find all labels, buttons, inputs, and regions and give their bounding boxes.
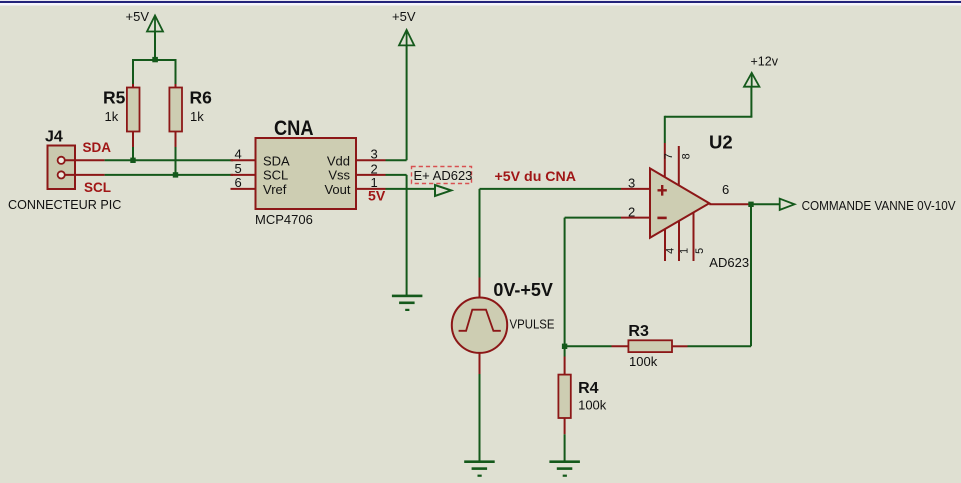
svg-text:+5V du CNA: +5V du CNA: [495, 168, 577, 184]
wire Vout to terminal: [386, 188, 435, 190]
svg-text:COMMANDE VANNE 0V-10V: COMMANDE VANNE 0V-10V: [802, 199, 956, 213]
source VPULSE: [452, 278, 507, 375]
svg-text:MCP4706: MCP4706: [255, 212, 313, 227]
wire junction to R4: [564, 346, 566, 356]
wire inverting drop: [564, 218, 566, 347]
wire +12v vertical: [750, 87, 752, 117]
svg-text:SCL: SCL: [84, 180, 111, 195]
svg-text:1k: 1k: [105, 109, 119, 124]
op-amp U2 AD623: [621, 143, 749, 261]
wire +5V drop: [406, 46, 408, 161]
junction output/feedback: [748, 202, 753, 207]
power +5V P1: [147, 16, 163, 32]
wire Vdd to +5V: [386, 159, 407, 161]
net tag E+ AD623: [412, 167, 473, 184]
svg-text:0V-+5V: 0V-+5V: [493, 280, 553, 300]
wire R5 to SDA net: [132, 147, 134, 160]
svg-text:+5V: +5V: [126, 9, 150, 24]
svg-text:3: 3: [371, 147, 378, 162]
svg-text:+12v: +12v: [751, 54, 779, 68]
svg-text:U2: U2: [709, 132, 733, 153]
wire R3 to feedback: [688, 345, 752, 347]
junction R5/SDA: [130, 158, 135, 163]
svg-text:7: 7: [663, 153, 675, 159]
power +12v P3: [744, 73, 759, 87]
svg-text:CNA: CNA: [274, 117, 314, 140]
svg-text:R6: R6: [190, 88, 213, 108]
wire P1 to rail: [154, 32, 156, 61]
svg-text:100k: 100k: [629, 354, 658, 369]
wire R6 to SCL net: [175, 147, 177, 175]
svg-text:SDA: SDA: [263, 153, 290, 168]
wire rail to R5: [132, 59, 134, 84]
svg-text:6: 6: [235, 175, 242, 190]
wire rail to R6: [175, 59, 177, 84]
svg-text:SDA: SDA: [83, 140, 112, 155]
connector J4: [48, 146, 105, 190]
svg-text:VPULSE: VPULSE: [510, 317, 555, 331]
svg-text:E+ AD623: E+ AD623: [414, 168, 473, 183]
wire op-amp pin2 horizontal: [565, 217, 621, 219]
wire R4 to ground: [564, 434, 566, 461]
svg-text:6: 6: [722, 182, 729, 197]
svg-text:3: 3: [628, 175, 635, 190]
svg-text:J4: J4: [45, 129, 63, 146]
wire junction to R3: [565, 345, 612, 347]
resistor R4: [558, 357, 570, 435]
wire SDA: [105, 159, 233, 161]
svg-text:Vdd: Vdd: [327, 153, 350, 168]
junction rail/P1: [152, 57, 158, 62]
power +5V P2: [399, 30, 414, 46]
svg-text:+5V: +5V: [392, 9, 416, 24]
wire +12v horizontal: [665, 116, 753, 118]
svg-text:4: 4: [235, 147, 242, 162]
ground (Vss): [392, 295, 423, 311]
wire +12v to pin7: [664, 116, 666, 143]
DAC U1 MCP4706: [231, 138, 386, 209]
svg-text:8: 8: [680, 153, 692, 159]
svg-text:R4: R4: [578, 380, 599, 397]
wire VPULSE down to ground: [479, 374, 481, 462]
svg-text:Vout: Vout: [324, 182, 350, 197]
svg-text:4: 4: [665, 248, 677, 254]
window top edge line: [0, 0, 961, 1]
wire output: [749, 203, 780, 205]
wire VPULSE up: [479, 189, 481, 278]
svg-text:100k: 100k: [578, 397, 607, 412]
terminal arrow output: [780, 199, 795, 210]
wire SCL: [105, 174, 233, 176]
wire feedback down: [750, 204, 752, 346]
wire Vss right: [386, 174, 407, 176]
svg-text:AD623: AD623: [709, 255, 749, 270]
svg-text:5V: 5V: [368, 189, 385, 204]
wire +5V rail: [132, 59, 177, 61]
terminal arrow 5V net: [435, 185, 451, 196]
junction R6/SCL: [173, 172, 178, 177]
wire Vss down to ground: [406, 175, 408, 296]
svg-text:CONNECTEUR PIC: CONNECTEUR PIC: [8, 198, 121, 212]
svg-text:1: 1: [678, 248, 690, 254]
svg-text:2: 2: [628, 204, 635, 219]
svg-text:5: 5: [694, 248, 706, 254]
resistor R3: [612, 340, 688, 352]
junction R3/R4/feedback: [562, 344, 567, 349]
svg-text:5: 5: [235, 161, 242, 176]
ground (VPULSE): [464, 460, 495, 476]
svg-text:R5: R5: [103, 88, 126, 108]
resistor R6: [169, 84, 182, 147]
svg-text:R3: R3: [628, 323, 649, 340]
resistor R5: [127, 84, 140, 147]
svg-text:Vref: Vref: [263, 182, 287, 197]
svg-text:1k: 1k: [190, 109, 204, 124]
svg-text:SCL: SCL: [263, 168, 288, 183]
svg-text:Vss: Vss: [328, 168, 350, 183]
wire +5V du CNA horizontal: [480, 188, 622, 190]
ground (R4): [549, 460, 580, 476]
